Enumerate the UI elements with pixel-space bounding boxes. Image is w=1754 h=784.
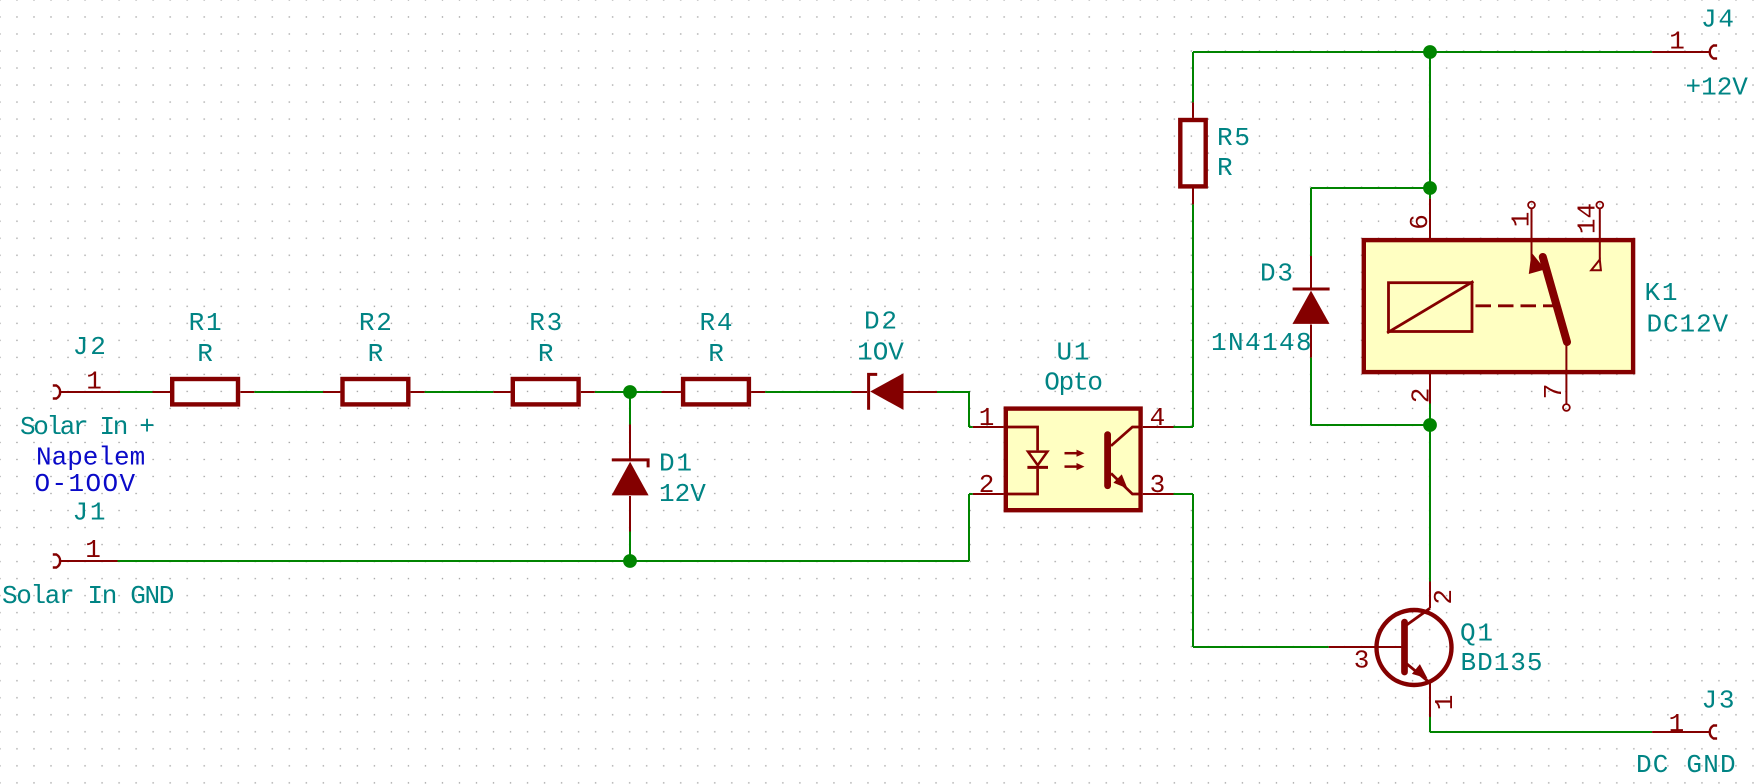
svg-text:1OV: 1OV <box>857 338 904 368</box>
svg-text:3: 3 <box>1354 646 1370 676</box>
svg-text:R: R <box>1217 153 1233 183</box>
svg-text:R2: R2 <box>359 308 394 338</box>
svg-text:D2: D2 <box>864 307 899 337</box>
svg-text:1: 1 <box>1507 212 1537 228</box>
svg-text:Solar In GND: Solar In GND <box>2 581 174 611</box>
svg-text:D3: D3 <box>1260 259 1295 289</box>
svg-text:2: 2 <box>1429 589 1459 605</box>
svg-text:2: 2 <box>979 470 995 500</box>
svg-text:4: 4 <box>1150 403 1166 433</box>
svg-text:DC12V: DC12V <box>1647 309 1730 339</box>
svg-text:Napelem: Napelem <box>36 443 145 473</box>
svg-text:1: 1 <box>85 535 101 565</box>
svg-text:J4: J4 <box>1701 5 1736 35</box>
svg-text:Solar In +: Solar In + <box>20 412 154 442</box>
svg-text:R5: R5 <box>1217 123 1252 153</box>
svg-text:Q1: Q1 <box>1460 619 1495 649</box>
svg-text:1: 1 <box>1669 26 1685 56</box>
svg-text:1: 1 <box>1430 695 1460 711</box>
svg-text:J2: J2 <box>73 332 108 362</box>
svg-text:6: 6 <box>1405 214 1435 230</box>
svg-text:Opto: Opto <box>1044 368 1102 398</box>
svg-text:U1: U1 <box>1056 337 1091 367</box>
svg-text:K1: K1 <box>1645 278 1680 308</box>
svg-text:1: 1 <box>1669 709 1685 739</box>
svg-text:R: R <box>708 339 724 369</box>
svg-text:BD135: BD135 <box>1461 648 1544 678</box>
svg-text:+12V: +12V <box>1686 73 1749 103</box>
svg-text:14: 14 <box>1573 203 1603 234</box>
svg-text:1: 1 <box>979 403 995 433</box>
svg-text:DC GND: DC GND <box>1636 750 1737 780</box>
svg-text:R1: R1 <box>189 308 224 338</box>
svg-text:1: 1 <box>86 366 102 396</box>
svg-text:R3: R3 <box>529 308 564 338</box>
svg-text:1N4148: 1N4148 <box>1211 328 1313 358</box>
svg-text:J1: J1 <box>73 498 108 528</box>
svg-text:R: R <box>368 339 384 369</box>
svg-text:12V: 12V <box>659 479 706 509</box>
svg-text:R4: R4 <box>699 308 734 338</box>
svg-text:7: 7 <box>1539 384 1569 400</box>
svg-text:O-1OOV: O-1OOV <box>35 469 137 499</box>
svg-text:D1: D1 <box>659 449 694 479</box>
svg-text:J3: J3 <box>1702 686 1737 716</box>
svg-text:R: R <box>197 339 213 369</box>
svg-text:R: R <box>538 339 554 369</box>
svg-text:3: 3 <box>1150 470 1166 500</box>
svg-text:2: 2 <box>1406 388 1436 404</box>
